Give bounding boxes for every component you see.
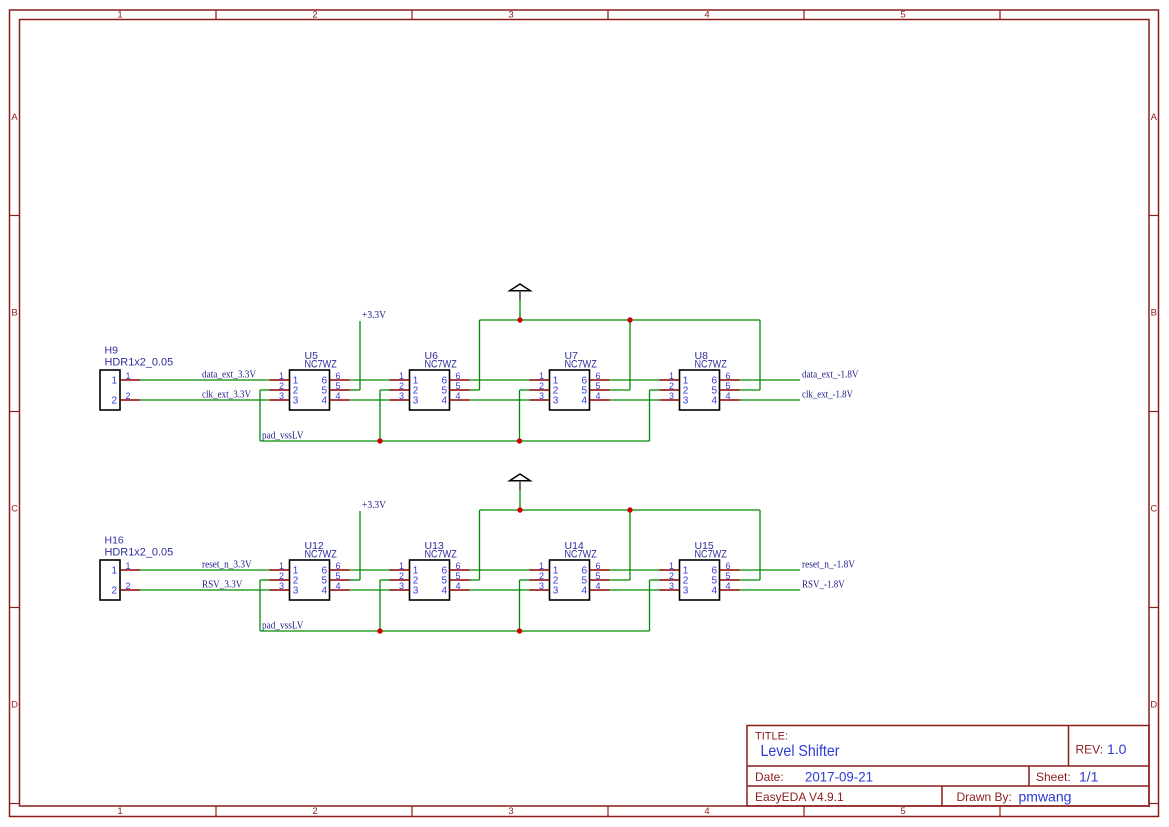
U14 pin 1 stub	[530, 569, 550, 571]
svg-text:5: 5	[336, 381, 341, 391]
svg-text:4: 4	[711, 586, 717, 597]
U15 pin 3 stub	[660, 589, 680, 591]
wire ('data_ext_3.3V', 54) segment 2	[350, 379, 390, 381]
svg-text:H9: H9	[105, 345, 119, 357]
U7 pin 1 stub	[530, 379, 550, 381]
U8 pin 5 stub	[720, 389, 740, 391]
H9 pin 2 stub	[120, 399, 140, 401]
U6 pin 4 stub	[450, 399, 470, 401]
svg-text:4: 4	[456, 581, 461, 591]
svg-text:2: 2	[669, 381, 674, 391]
svg-text:6: 6	[456, 561, 461, 571]
junction on pad_vssLV rail x=380	[377, 628, 382, 633]
svg-text:2: 2	[111, 586, 117, 597]
svg-text:5: 5	[900, 806, 905, 817]
svg-text:6: 6	[336, 371, 341, 381]
svg-text:RSV_-1.8V: RSV_-1.8V	[802, 579, 845, 591]
svg-text:2: 2	[126, 391, 131, 401]
svg-text:Date:: Date:	[755, 770, 784, 784]
svg-text:3: 3	[413, 396, 419, 407]
svg-text:NC7WZ: NC7WZ	[425, 549, 458, 561]
svg-text:2: 2	[399, 381, 404, 391]
svg-text:3: 3	[413, 586, 419, 597]
frame row tick left y=607.5	[10, 607, 20, 609]
svg-text:B: B	[1151, 308, 1157, 319]
svg-text:3: 3	[553, 586, 559, 597]
wire +3.3V rail link horiz 3	[610, 389, 631, 391]
svg-text:2: 2	[279, 381, 284, 391]
wire ('clk_ext_3.3V', 49) segment 3	[470, 399, 530, 401]
svg-text:clk_ext_-1.8V: clk_ext_-1.8V	[802, 389, 853, 401]
svg-text:2: 2	[399, 571, 404, 581]
U5 pin 4 stub	[330, 399, 350, 401]
svg-text:1: 1	[126, 371, 131, 381]
power flag +3.3V arrow	[510, 474, 531, 490]
U14 pin 4 stub	[590, 589, 610, 591]
title block outline	[747, 726, 1149, 807]
wire ('reset_n_3.3V', 49.7) segment 1	[140, 569, 270, 571]
svg-text:clk_ext_3.3V: clk_ext_3.3V	[202, 389, 251, 401]
svg-text:4: 4	[441, 396, 447, 407]
frame row tick right y=607.5	[1149, 607, 1159, 609]
wire pad_vssLV riser 4	[649, 390, 651, 441]
svg-text:1: 1	[539, 561, 544, 571]
U7 pin 5 stub	[590, 389, 610, 391]
svg-text:1: 1	[399, 561, 404, 571]
junction on pad_vssLV rail x=519.5	[517, 438, 522, 443]
wire +3.3V link horiz 1	[350, 389, 361, 391]
title block divider row2/row3	[747, 785, 1149, 787]
svg-text:5: 5	[456, 381, 461, 391]
wire pad_vssLV riser 2	[379, 580, 381, 631]
svg-text:3: 3	[279, 391, 284, 401]
wire ('RSV_3.3V', 40.4) segment 5	[740, 589, 801, 591]
svg-text:pmwang: pmwang	[1019, 789, 1072, 805]
H9 pin 1 stub	[120, 379, 140, 381]
frame column tick top x=608	[607, 10, 609, 20]
svg-text:NC7WZ: NC7WZ	[695, 359, 728, 371]
svg-text:pad_vssLV: pad_vssLV	[262, 620, 303, 632]
wire +3.3V rail link horiz 4	[740, 579, 761, 581]
wire +3.3V rail link horiz 2	[470, 579, 480, 581]
svg-text:5: 5	[900, 10, 905, 21]
U12 pin 5 stub	[330, 579, 350, 581]
svg-text:B: B	[11, 308, 17, 319]
U13 pin 2 stub	[390, 579, 410, 581]
wire +3.3V rail link horiz 4	[740, 389, 761, 391]
svg-text:1: 1	[669, 371, 674, 381]
U7 pin 2 stub	[530, 389, 550, 391]
wire pad_vssLV riser 1	[259, 390, 261, 441]
svg-text:C: C	[1150, 504, 1157, 515]
wire ('reset_n_3.3V', 49.7) segment 2	[350, 569, 390, 571]
svg-text:1: 1	[399, 371, 404, 381]
wire +3.3V rail riser 4	[759, 510, 761, 580]
svg-text:D: D	[1150, 700, 1157, 711]
IC U15 NC7WZ body	[680, 560, 720, 600]
svg-text:4: 4	[726, 581, 731, 591]
U15 pin 4 stub	[720, 589, 740, 591]
IC U12 NC7WZ body	[290, 560, 330, 600]
wire pad_vssLV link horiz 4	[650, 579, 660, 581]
U15 pin 2 stub	[660, 579, 680, 581]
frame column tick bottom x=1000	[999, 806, 1001, 817]
svg-text:5: 5	[456, 571, 461, 581]
H16 pin 2 stub	[120, 589, 140, 591]
svg-text:H16: H16	[105, 535, 124, 547]
wire ('clk_ext_3.3V', 49) segment 4	[610, 399, 660, 401]
svg-text:3: 3	[508, 10, 513, 21]
svg-text:1: 1	[669, 561, 674, 571]
U14 pin 5 stub	[590, 579, 610, 581]
wire pad_vssLV link horiz 3	[520, 579, 530, 581]
title block divider row1/row2	[747, 765, 1149, 767]
wire ('reset_n_3.3V', 49.7) segment 5	[740, 569, 801, 571]
wire +3.3V rail riser 4	[759, 320, 761, 390]
svg-text:1: 1	[279, 561, 284, 571]
wire ('data_ext_3.3V', 54) segment 3	[470, 379, 530, 381]
wire pad_vssLV link horiz 2	[380, 579, 390, 581]
junction on pad_vssLV rail x=380	[377, 438, 382, 443]
wire ('reset_n_3.3V', 49.7) segment 3	[470, 569, 530, 571]
IC U7 NC7WZ body	[550, 370, 590, 410]
svg-text:3: 3	[683, 586, 689, 597]
connector H16	[100, 560, 120, 600]
svg-text:5: 5	[336, 571, 341, 581]
svg-text:4: 4	[441, 586, 447, 597]
title block divider Drawn By	[941, 786, 943, 806]
svg-text:3: 3	[399, 581, 404, 591]
svg-text:Level Shifter: Level Shifter	[761, 743, 841, 760]
wire ('RSV_3.3V', 40.4) segment 1	[140, 589, 270, 591]
junction on +3.3V rail x=630	[627, 317, 632, 322]
svg-text:5: 5	[596, 381, 601, 391]
frame column tick bottom x=216	[215, 806, 217, 817]
svg-text:5: 5	[726, 381, 731, 391]
wire pad_vssLV rail	[260, 440, 650, 442]
U12 pin 4 stub	[330, 589, 350, 591]
U8 pin 2 stub	[660, 389, 680, 391]
junction on pad_vssLV rail x=519.5	[517, 628, 522, 633]
svg-text:3: 3	[539, 391, 544, 401]
frame row tick left y=215.5	[10, 215, 20, 217]
U12 pin 3 stub	[270, 589, 290, 591]
wire pad_vssLV rail	[260, 630, 650, 632]
U5 pin 6 stub	[330, 379, 350, 381]
wire +3.3V rail	[480, 509, 761, 511]
wire pad_vssLV link horiz 2	[380, 389, 390, 391]
svg-text:4: 4	[321, 586, 327, 597]
frame column tick top x=216	[215, 10, 217, 20]
U13 pin 3 stub	[390, 589, 410, 591]
svg-text:1: 1	[117, 10, 122, 21]
svg-text:+3.3V: +3.3V	[362, 499, 386, 511]
U14 pin 6 stub	[590, 569, 610, 571]
wire power flag to rail	[519, 490, 521, 510]
svg-text:NC7WZ: NC7WZ	[425, 359, 458, 371]
frame column tick top x=1000	[999, 10, 1001, 20]
svg-text:TITLE:: TITLE:	[755, 731, 788, 743]
wire +3.3V link horiz 1	[350, 579, 361, 581]
svg-text:3: 3	[683, 396, 689, 407]
title block divider REV	[1068, 726, 1070, 767]
IC U14 NC7WZ body	[550, 560, 590, 600]
svg-text:6: 6	[336, 561, 341, 571]
frame column tick bottom x=608	[607, 806, 609, 817]
svg-text:6: 6	[456, 371, 461, 381]
U8 pin 1 stub	[660, 379, 680, 381]
svg-text:HDR1x2_0.05: HDR1x2_0.05	[105, 547, 174, 559]
svg-text:HDR1x2_0.05: HDR1x2_0.05	[105, 357, 174, 369]
svg-text:A: A	[1151, 112, 1158, 123]
frame row tick right y=803.5	[1149, 803, 1159, 805]
svg-text:2: 2	[111, 396, 117, 407]
U8 pin 4 stub	[720, 399, 740, 401]
svg-text:NC7WZ: NC7WZ	[695, 549, 728, 561]
wire ('RSV_3.3V', 40.4) segment 3	[470, 589, 530, 591]
svg-text:NC7WZ: NC7WZ	[305, 549, 338, 561]
svg-text:3: 3	[293, 586, 299, 597]
U5 pin 2 stub	[270, 389, 290, 391]
U14 pin 3 stub	[530, 589, 550, 591]
svg-text:1: 1	[539, 371, 544, 381]
frame column tick top x=804	[803, 10, 805, 20]
wire pad_vssLV link horiz 3	[520, 389, 530, 391]
U12 pin 6 stub	[330, 569, 350, 571]
U15 pin 6 stub	[720, 569, 740, 571]
U7 pin 3 stub	[530, 399, 550, 401]
IC U6 NC7WZ body	[410, 370, 450, 410]
svg-text:4: 4	[704, 806, 709, 817]
svg-text:3: 3	[399, 391, 404, 401]
svg-text:6: 6	[726, 371, 731, 381]
wire ('RSV_3.3V', 40.4) segment 4	[610, 589, 660, 591]
svg-text:data_ext_-1.8V: data_ext_-1.8V	[802, 369, 859, 381]
svg-text:+3.3V: +3.3V	[362, 309, 386, 321]
svg-text:3: 3	[669, 391, 674, 401]
svg-text:6: 6	[596, 561, 601, 571]
U5 pin 5 stub	[330, 389, 350, 391]
svg-text:2017-09-21: 2017-09-21	[805, 769, 873, 785]
wire ('reset_n_3.3V', 49.7) segment 4	[610, 569, 660, 571]
svg-text:4: 4	[581, 396, 587, 407]
svg-text:NC7WZ: NC7WZ	[305, 359, 338, 371]
svg-text:3: 3	[279, 581, 284, 591]
U8 pin 6 stub	[720, 379, 740, 381]
U15 pin 1 stub	[660, 569, 680, 571]
wire pad_vssLV riser 4	[649, 580, 651, 631]
svg-text:3: 3	[539, 581, 544, 591]
wire pad_vssLV riser 3	[519, 390, 521, 441]
svg-text:4: 4	[336, 581, 341, 591]
svg-text:EasyEDA V4.9.1: EasyEDA V4.9.1	[755, 790, 844, 804]
U7 pin 6 stub	[590, 379, 610, 381]
wire +3.3V stub vertical	[359, 511, 361, 580]
svg-text:D: D	[11, 700, 18, 711]
svg-text:5: 5	[726, 571, 731, 581]
svg-text:reset_n_-1.8V: reset_n_-1.8V	[802, 559, 855, 571]
U13 pin 5 stub	[450, 579, 470, 581]
IC U5 NC7WZ body	[290, 370, 330, 410]
svg-text:3: 3	[293, 396, 299, 407]
svg-text:REV:: REV:	[1076, 743, 1104, 757]
wire +3.3V rail riser 3	[629, 510, 631, 580]
U5 pin 1 stub	[270, 379, 290, 381]
svg-text:4: 4	[704, 10, 709, 21]
wire pad_vssLV riser 2	[379, 390, 381, 441]
wire ('RSV_3.3V', 40.4) segment 2	[350, 589, 390, 591]
svg-text:2: 2	[539, 381, 544, 391]
U6 pin 6 stub	[450, 379, 470, 381]
U13 pin 4 stub	[450, 589, 470, 591]
frame row tick right y=215.5	[1149, 215, 1159, 217]
svg-text:2: 2	[312, 806, 317, 817]
frame column tick top x=412	[411, 10, 413, 20]
svg-text:C: C	[11, 504, 18, 515]
svg-text:1: 1	[111, 376, 117, 387]
wire +3.3V rail riser 2	[479, 320, 481, 390]
svg-text:4: 4	[321, 396, 327, 407]
svg-text:4: 4	[596, 581, 601, 591]
U7 pin 4 stub	[590, 399, 610, 401]
frame column tick bottom x=804	[803, 806, 805, 817]
svg-text:A: A	[11, 112, 18, 123]
svg-text:4: 4	[336, 391, 341, 401]
U14 pin 2 stub	[530, 579, 550, 581]
U12 pin 2 stub	[270, 579, 290, 581]
svg-text:1: 1	[279, 371, 284, 381]
svg-text:3: 3	[508, 806, 513, 817]
H16 pin 1 stub	[120, 569, 140, 571]
svg-text:2: 2	[312, 10, 317, 21]
U8 pin 3 stub	[660, 399, 680, 401]
U6 pin 5 stub	[450, 389, 470, 391]
frame row tick left y=803.5	[10, 803, 20, 805]
wire +3.3V rail riser 2	[479, 510, 481, 580]
IC U8 NC7WZ body	[680, 370, 720, 410]
wire ('data_ext_3.3V', 54) segment 4	[610, 379, 660, 381]
svg-text:1: 1	[126, 561, 131, 571]
svg-text:Sheet:: Sheet:	[1036, 770, 1071, 784]
wire +3.3V stub vertical	[359, 321, 361, 390]
wire +3.3V rail link horiz 2	[470, 389, 480, 391]
svg-text:data_ext_3.3V: data_ext_3.3V	[202, 369, 256, 381]
svg-text:3: 3	[553, 396, 559, 407]
svg-text:reset_n_3.3V: reset_n_3.3V	[202, 559, 252, 571]
svg-text:2: 2	[669, 571, 674, 581]
wire pad_vssLV riser 1	[259, 580, 261, 631]
svg-text:NC7WZ: NC7WZ	[565, 359, 598, 371]
wire +3.3V rail riser 3	[629, 320, 631, 390]
junction on +3.3V rail x=520	[517, 507, 522, 512]
svg-text:1: 1	[111, 566, 117, 577]
svg-text:1.0: 1.0	[1107, 741, 1127, 757]
U6 pin 2 stub	[390, 389, 410, 391]
wire pad_vssLV link horiz 1	[260, 579, 270, 581]
wire power flag to rail	[519, 300, 521, 320]
svg-text:2: 2	[539, 571, 544, 581]
power flag +3.3V arrow	[510, 284, 531, 300]
svg-text:1/1: 1/1	[1079, 769, 1099, 785]
U6 pin 1 stub	[390, 379, 410, 381]
wire pad_vssLV riser 3	[519, 580, 521, 631]
wire pad_vssLV link horiz 1	[260, 389, 270, 391]
svg-text:6: 6	[726, 561, 731, 571]
title block divider Sheet	[1028, 766, 1030, 786]
svg-text:4: 4	[726, 391, 731, 401]
wire ('data_ext_3.3V', 54) segment 5	[740, 379, 801, 381]
svg-text:1: 1	[117, 806, 122, 817]
wire pad_vssLV link horiz 4	[650, 389, 660, 391]
svg-text:NC7WZ: NC7WZ	[565, 549, 598, 561]
frame row tick left y=411.5	[10, 411, 20, 413]
connector H9	[100, 370, 120, 410]
svg-text:2: 2	[279, 571, 284, 581]
svg-text:6: 6	[596, 371, 601, 381]
svg-text:5: 5	[596, 571, 601, 581]
svg-text:pad_vssLV: pad_vssLV	[262, 430, 303, 442]
svg-text:4: 4	[711, 396, 717, 407]
wire +3.3V rail	[480, 319, 761, 321]
IC U13 NC7WZ body	[410, 560, 450, 600]
U15 pin 5 stub	[720, 579, 740, 581]
svg-text:3: 3	[669, 581, 674, 591]
U13 pin 6 stub	[450, 569, 470, 571]
U12 pin 1 stub	[270, 569, 290, 571]
U13 pin 1 stub	[390, 569, 410, 571]
junction on +3.3V rail x=630	[627, 507, 632, 512]
wire ('clk_ext_3.3V', 49) segment 5	[740, 399, 801, 401]
svg-text:RSV_3.3V: RSV_3.3V	[202, 579, 242, 591]
frame row tick right y=411.5	[1149, 411, 1159, 413]
wire ('clk_ext_3.3V', 49) segment 2	[350, 399, 390, 401]
svg-text:4: 4	[581, 586, 587, 597]
junction on +3.3V rail x=520	[517, 317, 522, 322]
wire +3.3V rail link horiz 3	[610, 579, 631, 581]
svg-text:4: 4	[596, 391, 601, 401]
wire ('clk_ext_3.3V', 49) segment 1	[140, 399, 270, 401]
svg-text:4: 4	[456, 391, 461, 401]
svg-text:2: 2	[126, 581, 131, 591]
svg-text:Drawn By:: Drawn By:	[957, 790, 1012, 804]
U6 pin 3 stub	[390, 399, 410, 401]
frame column tick bottom x=412	[411, 806, 413, 817]
wire ('data_ext_3.3V', 54) segment 1	[140, 379, 270, 381]
U5 pin 3 stub	[270, 399, 290, 401]
